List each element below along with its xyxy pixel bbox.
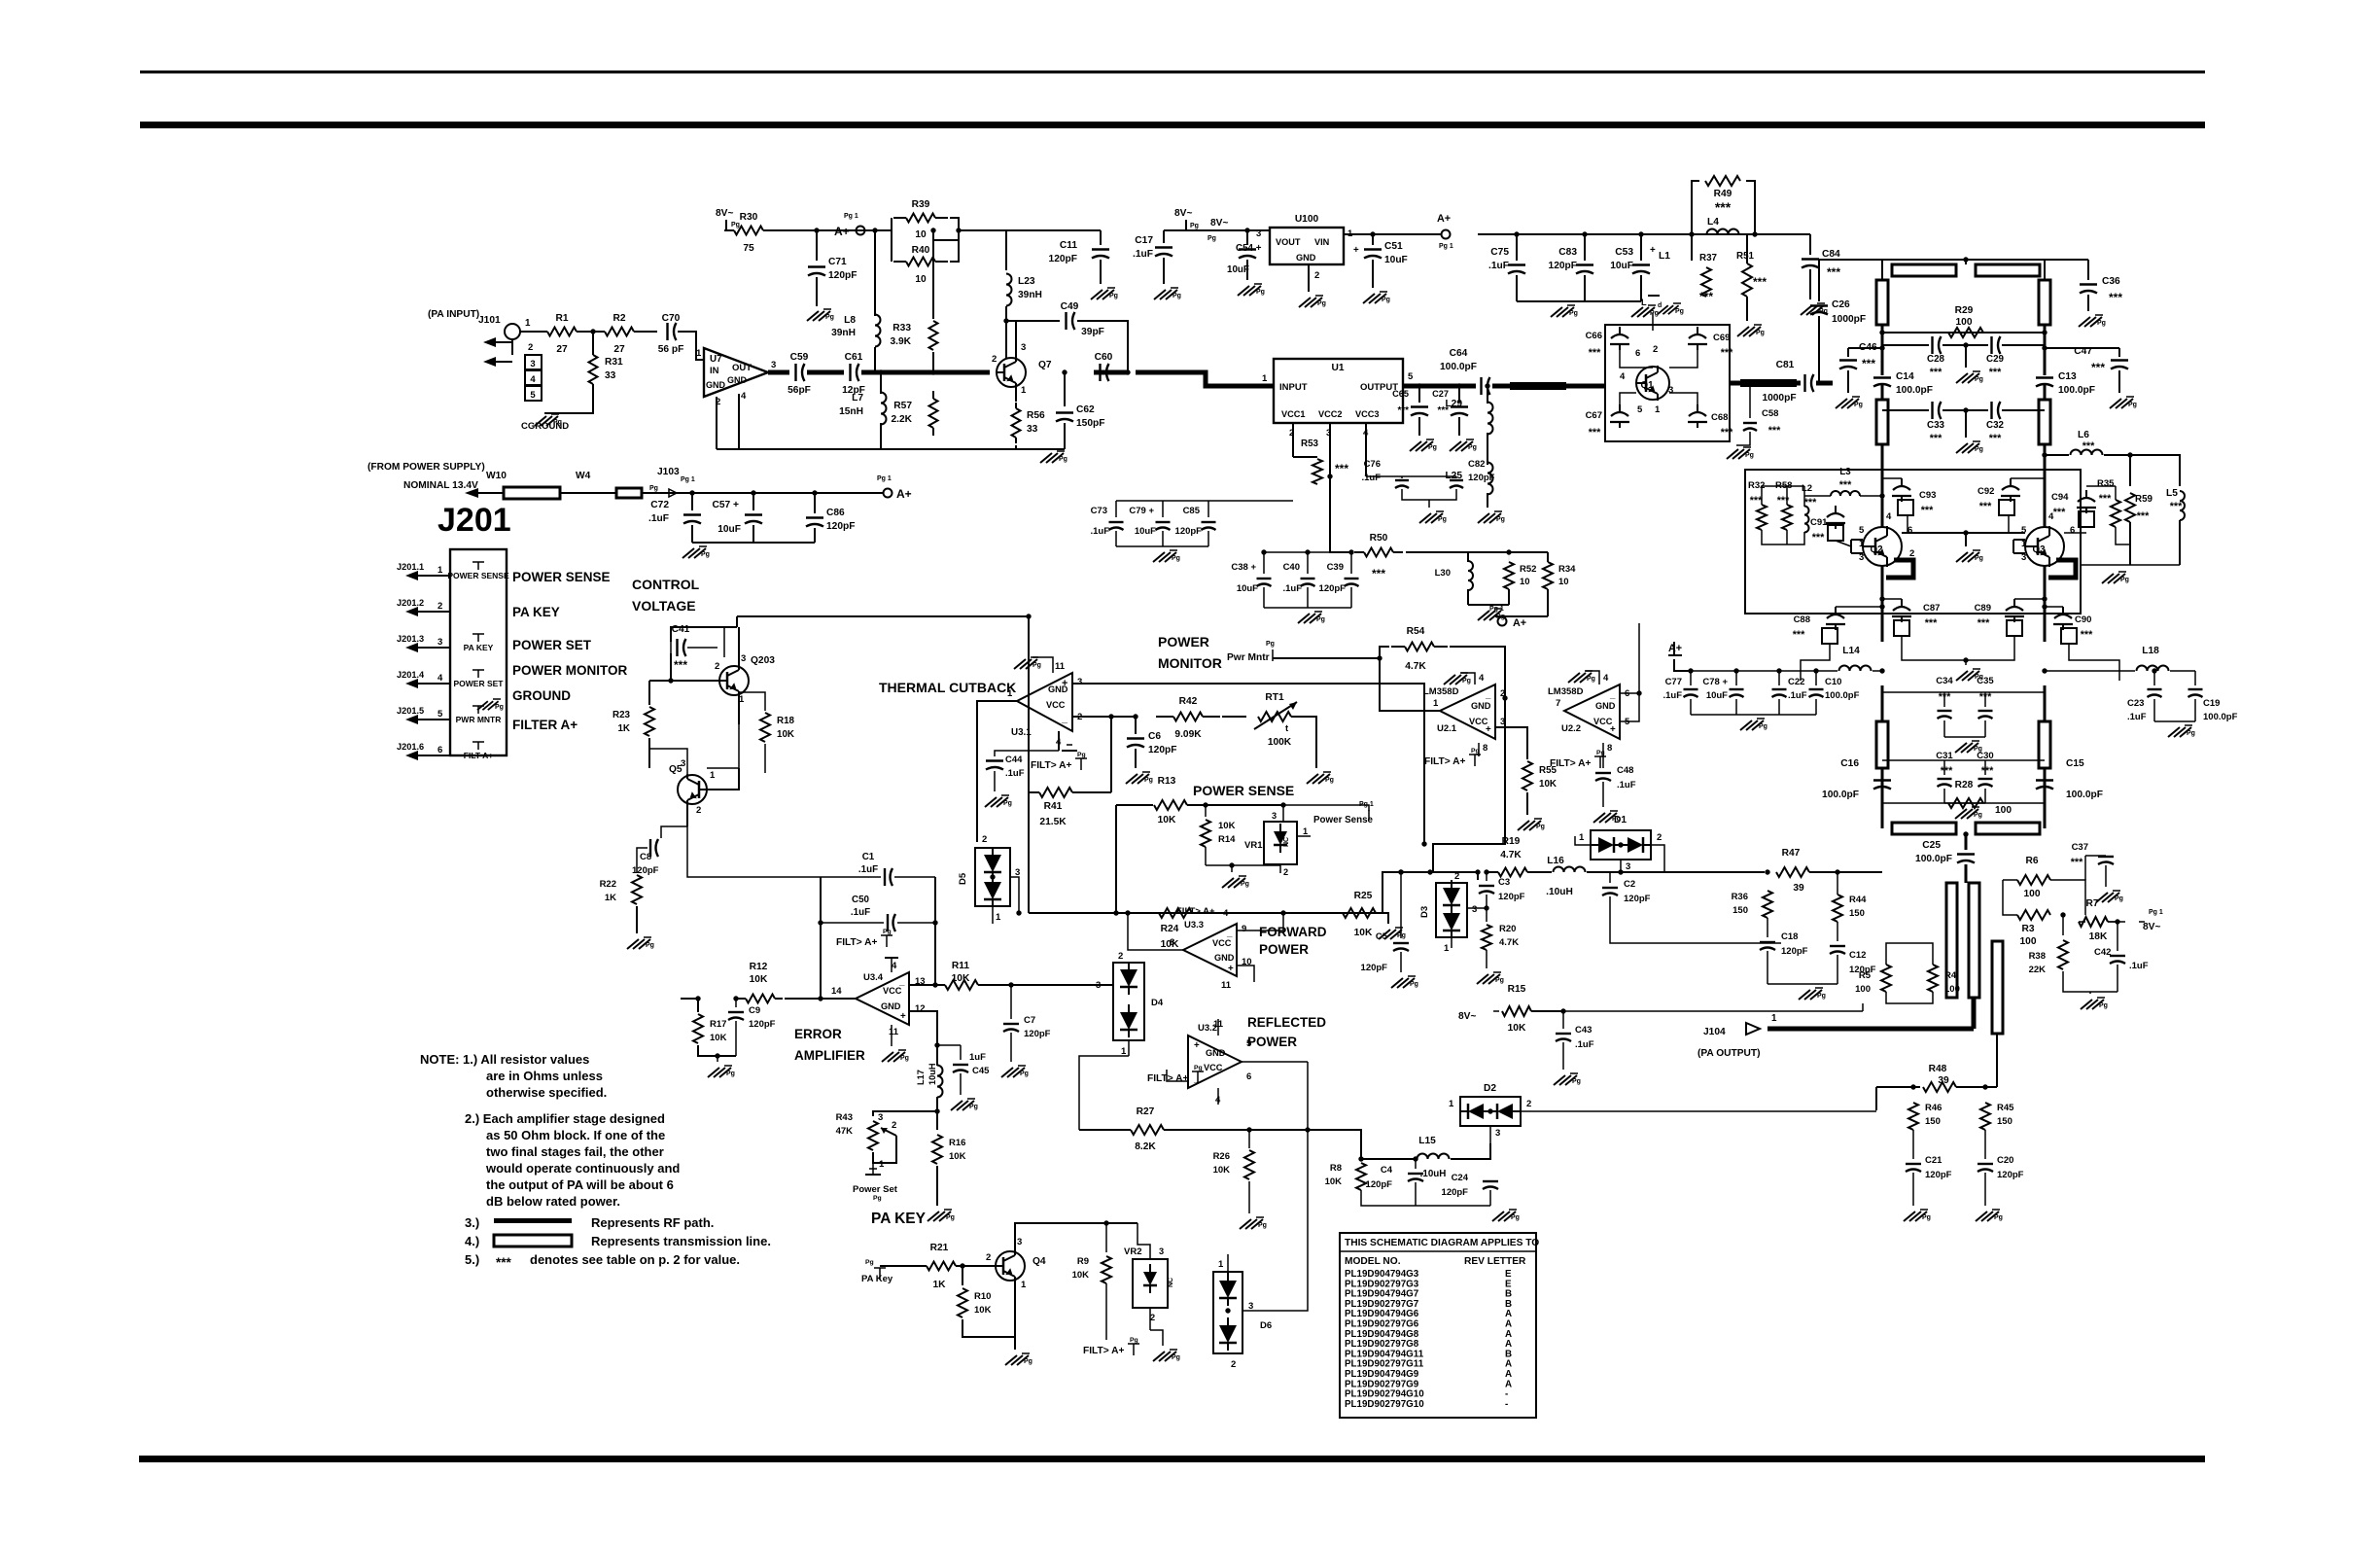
svg-text:C36: C36 <box>2102 276 2120 287</box>
svg-text:Pg: Pg <box>1428 444 1437 451</box>
svg-text:21.5K: 21.5K <box>1039 817 1067 827</box>
svg-text:R53: R53 <box>1301 439 1319 449</box>
svg-text:120pF: 120pF <box>1175 526 1203 537</box>
svg-text:6: 6 <box>1907 525 1912 536</box>
svg-text:_: _ <box>1609 689 1616 700</box>
svg-text:R59: R59 <box>2135 494 2153 505</box>
svg-text:GROUND: GROUND <box>512 688 571 703</box>
svg-text:U1: U1 <box>1331 363 1344 373</box>
svg-text:Pg: Pg <box>1587 676 1595 683</box>
svg-text:C46: C46 <box>1859 342 1877 353</box>
svg-text:6: 6 <box>1635 348 1640 359</box>
svg-text:75: 75 <box>743 243 754 254</box>
svg-text:Pg: Pg <box>1495 977 1504 984</box>
svg-text:R24: R24 <box>1161 924 1179 934</box>
svg-text:***: *** <box>1827 265 1840 279</box>
svg-text:NOMINAL 13.4V: NOMINAL 13.4V <box>403 480 478 491</box>
svg-text:120pF: 120pF <box>1361 963 1388 973</box>
svg-text:Pg: Pg <box>1032 662 1041 669</box>
svg-text:Pg: Pg <box>1190 223 1199 229</box>
svg-text:+: + <box>900 1011 906 1022</box>
svg-text:_: _ <box>1061 713 1068 724</box>
svg-text:4: 4 <box>530 374 536 385</box>
svg-text:_: _ <box>1485 689 1491 700</box>
svg-text:10: 10 <box>1520 577 1530 587</box>
svg-text:C81: C81 <box>1776 360 1795 370</box>
svg-text:2: 2 <box>992 354 997 365</box>
svg-text:5.): 5.) <box>465 1252 479 1267</box>
svg-text:dB below rated power.: dB below rated power. <box>486 1194 620 1209</box>
svg-text:A+: A+ <box>896 487 912 501</box>
svg-text:***: *** <box>1812 532 1825 544</box>
svg-text:C40: C40 <box>1283 562 1300 573</box>
svg-text:100.0pF: 100.0pF <box>2058 385 2095 396</box>
svg-text:Q203: Q203 <box>751 655 775 666</box>
svg-text:J201: J201 <box>437 502 511 539</box>
svg-text:Pg: Pg <box>900 1055 909 1062</box>
svg-text:C76: C76 <box>1364 459 1381 470</box>
svg-text:C88: C88 <box>1794 614 1810 625</box>
svg-text:Pg: Pg <box>646 942 654 949</box>
svg-text:.1uF: .1uF <box>1662 690 1682 701</box>
svg-text:Pg: Pg <box>1975 555 1983 562</box>
svg-text:R4: R4 <box>1944 970 1957 981</box>
svg-text:R19: R19 <box>1502 836 1521 847</box>
svg-text:1: 1 <box>1433 698 1439 709</box>
svg-text:C33: C33 <box>1927 420 1945 431</box>
svg-text:D5: D5 <box>958 872 968 885</box>
svg-text:***: *** <box>1793 629 1805 641</box>
svg-text:Pg: Pg <box>2128 402 2137 408</box>
svg-text:120pF: 120pF <box>1442 1187 1469 1198</box>
svg-text:150: 150 <box>1997 1116 2012 1127</box>
svg-text:Pg: Pg <box>1569 310 1578 317</box>
svg-text:120pF: 120pF <box>749 1019 776 1030</box>
svg-text:***: *** <box>1939 691 1951 703</box>
svg-text:5: 5 <box>530 390 536 401</box>
svg-text:C72: C72 <box>650 500 669 510</box>
svg-text:R14: R14 <box>1218 834 1236 845</box>
svg-text:R48: R48 <box>1929 1064 1947 1074</box>
svg-text:1: 1 <box>1655 404 1661 415</box>
svg-text:d: d <box>1658 302 1662 309</box>
svg-text:C25: C25 <box>1922 840 1941 851</box>
svg-text:R21: R21 <box>930 1243 949 1253</box>
svg-text:4: 4 <box>892 961 897 971</box>
svg-text:8V~: 8V~ <box>1174 208 1192 219</box>
svg-text:C2: C2 <box>1624 879 1635 890</box>
svg-text:Pg 1: Pg 1 <box>844 213 858 220</box>
svg-text:.1uF: .1uF <box>1005 768 1025 779</box>
svg-text:10K: 10K <box>1158 815 1176 825</box>
svg-text:W4: W4 <box>576 471 591 481</box>
svg-text:C45: C45 <box>972 1066 990 1076</box>
svg-text:D2: D2 <box>1484 1083 1496 1094</box>
svg-text:GND: GND <box>706 380 726 390</box>
svg-text:C14: C14 <box>1896 371 1914 382</box>
svg-text:R30: R30 <box>740 212 758 223</box>
svg-text:***: *** <box>2081 629 2093 641</box>
svg-text:***: *** <box>1721 427 1733 439</box>
svg-text:C51: C51 <box>1384 241 1403 252</box>
svg-text:5: 5 <box>1637 404 1643 415</box>
svg-text:_: _ <box>1193 1073 1200 1084</box>
svg-text:1: 1 <box>710 770 716 781</box>
svg-text:.1uF: .1uF <box>1133 249 1153 260</box>
svg-text:3: 3 <box>530 359 535 369</box>
svg-text:C94: C94 <box>2051 492 2069 503</box>
svg-text:***: *** <box>1589 347 1601 359</box>
svg-text:4.7K: 4.7K <box>1500 850 1522 860</box>
svg-text:L14: L14 <box>1842 646 1860 656</box>
svg-text:(PA INPUT): (PA INPUT) <box>428 309 479 320</box>
svg-text:VR2: VR2 <box>1124 1247 1141 1257</box>
svg-text:.1uF: .1uF <box>1282 583 1302 594</box>
svg-text:3: 3 <box>1495 1128 1500 1139</box>
svg-text:GND: GND <box>881 1001 901 1011</box>
svg-text:POWER SENSE: POWER SENSE <box>512 570 611 584</box>
svg-text:C23: C23 <box>2127 698 2144 709</box>
svg-text:1: 1 <box>1021 385 1027 396</box>
svg-text:C37: C37 <box>2072 842 2088 853</box>
svg-text:R26: R26 <box>1213 1151 1230 1162</box>
svg-text:POWER: POWER <box>1259 942 1309 957</box>
svg-text:Pg: Pg <box>2097 320 2106 327</box>
svg-text:Pg: Pg <box>946 1214 955 1221</box>
svg-text:C9: C9 <box>749 1005 760 1016</box>
svg-text:as 50 Ohm block. If one: as 50 Ohm block. If one of the <box>486 1128 665 1142</box>
svg-text:2: 2 <box>1657 832 1662 843</box>
svg-text:.1uF: .1uF <box>1575 1039 1594 1050</box>
svg-text:2: 2 <box>1314 270 1319 281</box>
svg-text:R44: R44 <box>1849 895 1867 905</box>
svg-text:C68: C68 <box>1711 412 1728 423</box>
svg-text:***: *** <box>1753 275 1767 289</box>
svg-text:100: 100 <box>1944 984 1960 995</box>
svg-text:R43: R43 <box>836 1112 853 1123</box>
svg-text:120pF: 120pF <box>632 865 659 876</box>
svg-text:Pg: Pg <box>1316 616 1325 623</box>
svg-text:L17: L17 <box>916 1070 926 1085</box>
svg-text:Pg: Pg <box>1256 289 1265 296</box>
svg-text:.1uF: .1uF <box>851 907 870 918</box>
svg-text:.10uH: .10uH <box>1546 887 1573 897</box>
svg-text:***: *** <box>1438 405 1450 416</box>
svg-text:A+: A+ <box>834 225 850 238</box>
svg-text:U3.1: U3.1 <box>1011 727 1032 738</box>
svg-text:Pg: Pg <box>2187 730 2195 737</box>
svg-text:C11: C11 <box>1060 240 1077 251</box>
svg-text:100.0pF: 100.0pF <box>1896 385 1933 396</box>
svg-text:27: 27 <box>613 344 625 355</box>
svg-text:U3.3: U3.3 <box>1184 920 1204 931</box>
svg-text:Pg 1: Pg 1 <box>1439 243 1453 250</box>
svg-text:3: 3 <box>437 637 442 648</box>
svg-text:FILT> A+: FILT> A+ <box>1031 760 1072 771</box>
svg-text:10K: 10K <box>710 1033 727 1043</box>
svg-text:Pg: Pg <box>1817 993 1826 1000</box>
svg-text:C90: C90 <box>2075 614 2091 625</box>
svg-text:120pF: 120pF <box>1366 1179 1393 1190</box>
svg-text:L1: L1 <box>1659 251 1670 262</box>
svg-text:Pg: Pg <box>1382 297 1390 303</box>
svg-text:Pg: Pg <box>1258 1222 1267 1229</box>
svg-text:***: *** <box>1768 425 1781 437</box>
svg-text:Pg: Pg <box>1172 293 1181 299</box>
svg-text:(FROM POWER SUPPLY): (FROM POWER SUPPLY) <box>367 462 485 473</box>
svg-text:R3: R3 <box>2021 924 2034 934</box>
svg-text:150: 150 <box>1849 908 1865 919</box>
svg-text:Pg: Pg <box>1130 1337 1138 1344</box>
svg-text:8V~: 8V~ <box>1210 218 1228 228</box>
svg-text:39: 39 <box>1938 1075 1949 1086</box>
svg-text:C78 +: C78 + <box>1702 677 1728 687</box>
svg-text:18K: 18K <box>2089 931 2108 942</box>
svg-text:100.0pF: 100.0pF <box>1915 854 1952 864</box>
svg-text:+: + <box>1650 245 1656 256</box>
svg-text:FORWARD: FORWARD <box>1259 925 1327 939</box>
svg-text:REFLECTED: REFLECTED <box>1247 1015 1326 1030</box>
svg-text:Q4: Q4 <box>1032 1256 1046 1267</box>
svg-text:R56: R56 <box>1027 410 1045 421</box>
svg-text:2: 2 <box>982 834 987 845</box>
svg-text:L23: L23 <box>1018 276 1035 287</box>
svg-text:***: *** <box>1839 479 1852 491</box>
svg-text:GND: GND <box>1206 1048 1226 1058</box>
svg-text:R54: R54 <box>1407 626 1425 637</box>
svg-text:120pF: 120pF <box>1624 894 1651 904</box>
svg-text:D3: D3 <box>1419 906 1430 918</box>
svg-text:L8: L8 <box>844 315 856 326</box>
svg-text:C32: C32 <box>1986 420 2005 431</box>
svg-text:4: 4 <box>1620 371 1626 382</box>
svg-text:***: *** <box>2099 493 2112 505</box>
svg-text:PL19D902797G10: PL19D902797G10 <box>1345 1399 1424 1410</box>
svg-text:100: 100 <box>2020 936 2037 947</box>
svg-text:3: 3 <box>771 360 776 370</box>
svg-text:C62: C62 <box>1076 404 1095 415</box>
svg-text:MODEL NO.: MODEL NO. <box>1345 1256 1401 1267</box>
svg-text:***: *** <box>1862 357 1875 370</box>
svg-text:Represents transmission line: Represents transmission line. <box>591 1234 771 1248</box>
svg-text:L15: L15 <box>1418 1136 1436 1146</box>
svg-text:J201.1: J201.1 <box>397 562 424 572</box>
svg-text:J201.6: J201.6 <box>397 742 424 752</box>
svg-text:120pF: 120pF <box>828 270 857 281</box>
svg-text:R15: R15 <box>1508 984 1526 995</box>
svg-text:***: *** <box>2082 440 2095 452</box>
svg-text:33: 33 <box>1027 424 1038 435</box>
svg-text:C59: C59 <box>790 352 809 363</box>
svg-text:R33: R33 <box>892 323 911 334</box>
svg-text:C27: C27 <box>1432 389 1449 399</box>
svg-text:Pg: Pg <box>1974 812 1982 819</box>
svg-text:3: 3 <box>1096 980 1101 991</box>
svg-text:***: *** <box>1930 367 1942 378</box>
svg-text:FILT> A+: FILT> A+ <box>1550 758 1592 769</box>
svg-text:Pg 1: Pg 1 <box>681 476 695 483</box>
svg-text:L4: L4 <box>1707 217 1719 228</box>
svg-text:R28: R28 <box>1955 780 1974 790</box>
svg-text:R36: R36 <box>1732 892 1748 902</box>
svg-text:10uH: 10uH <box>927 1063 937 1085</box>
svg-text:Pg: Pg <box>1109 293 1118 299</box>
svg-text:IN: IN <box>710 366 719 376</box>
svg-text:1: 1 <box>437 565 443 576</box>
svg-text:120pF: 120pF <box>1468 473 1495 483</box>
svg-text:6: 6 <box>437 745 442 755</box>
svg-text:C3: C3 <box>1498 877 1510 888</box>
svg-text:1: 1 <box>1449 1099 1454 1109</box>
svg-text:100.0pF: 100.0pF <box>2203 712 2238 722</box>
svg-text:2: 2 <box>1653 344 1658 355</box>
svg-text:C65: C65 <box>1392 389 1409 399</box>
svg-text:Pg: Pg <box>873 1195 882 1202</box>
svg-text:_: _ <box>1226 928 1233 938</box>
svg-text:C41: C41 <box>672 624 690 635</box>
svg-text:2: 2 <box>892 1120 896 1131</box>
svg-text:-: - <box>1505 1399 1508 1410</box>
svg-text:Pg: Pg <box>701 551 710 558</box>
svg-text:R38: R38 <box>2029 951 2046 962</box>
svg-text:120pF: 120pF <box>1024 1029 1051 1039</box>
svg-text:(PA OUTPUT): (PA OUTPUT) <box>1697 1048 1761 1059</box>
svg-text:120pF: 120pF <box>1148 745 1176 755</box>
svg-text:VCC: VCC <box>1212 938 1232 948</box>
svg-text:LM358D: LM358D <box>1548 686 1584 697</box>
svg-text:39pF: 39pF <box>1081 327 1104 337</box>
svg-text:***: *** <box>2137 510 2150 522</box>
svg-text:R29: R29 <box>1955 305 1974 316</box>
svg-text:denotes see table on p. 2: denotes see table on p. 2 for value. <box>530 1252 740 1267</box>
svg-text:100K: 100K <box>1268 737 1292 748</box>
svg-text:8: 8 <box>1170 937 1174 948</box>
svg-text:PA KEY: PA KEY <box>512 605 560 619</box>
svg-text:Pg: Pg <box>1994 1214 2003 1221</box>
svg-text:R37: R37 <box>1699 253 1718 263</box>
svg-text:R11: R11 <box>952 961 969 971</box>
svg-text:1: 1 <box>1579 832 1585 843</box>
svg-text:C93: C93 <box>1919 490 1936 501</box>
svg-text:POWER: POWER <box>1247 1035 1297 1049</box>
svg-text:POWER: POWER <box>1158 634 1209 650</box>
svg-text:11: 11 <box>889 1027 899 1037</box>
svg-text:120pF: 120pF <box>1498 892 1525 902</box>
svg-text:C69: C69 <box>1713 333 1730 343</box>
svg-text:+: + <box>1228 964 1234 974</box>
svg-text:.1uF: .1uF <box>2127 712 2147 722</box>
svg-text:8V~: 8V~ <box>2143 922 2160 932</box>
svg-text:100: 100 <box>2024 889 2041 899</box>
svg-text:Pg: Pg <box>731 222 740 228</box>
svg-text:U2.1: U2.1 <box>1437 723 1457 734</box>
svg-text:10K: 10K <box>949 1151 966 1162</box>
svg-text:22K: 22K <box>2029 965 2047 975</box>
svg-text:C75: C75 <box>1490 247 1509 258</box>
svg-text:C67: C67 <box>1586 410 1602 421</box>
svg-text:R16: R16 <box>949 1138 965 1148</box>
svg-text:3: 3 <box>1017 1237 1022 1247</box>
svg-text:***: *** <box>1750 495 1763 507</box>
svg-text:C5: C5 <box>1376 931 1388 942</box>
svg-text:GND: GND <box>1471 701 1491 711</box>
svg-text:C64: C64 <box>1450 348 1468 359</box>
svg-text:***: *** <box>1989 433 2002 444</box>
svg-text:C21: C21 <box>1925 1155 1942 1166</box>
svg-text:Pg: Pg <box>1471 748 1480 755</box>
svg-text:1: 1 <box>1262 373 1268 384</box>
svg-text:C61: C61 <box>845 352 863 363</box>
svg-text:Pwr Mntr: Pwr Mntr <box>1227 652 1270 663</box>
svg-text:Pg: Pg <box>1172 555 1180 562</box>
svg-text:D4: D4 <box>1151 998 1164 1008</box>
svg-text:RT1: RT1 <box>1265 692 1284 703</box>
svg-text:Pg: Pg <box>1144 777 1153 784</box>
svg-text:3: 3 <box>1021 342 1026 353</box>
svg-text:MONITOR: MONITOR <box>1158 655 1222 671</box>
svg-text:C83: C83 <box>1558 247 1577 258</box>
svg-text:***: *** <box>1372 567 1385 580</box>
svg-text:+: + <box>1610 724 1616 735</box>
svg-text:Pg: Pg <box>1536 824 1545 830</box>
svg-text:1: 1 <box>525 318 531 329</box>
svg-text:120pF: 120pF <box>1781 946 1808 957</box>
svg-text:+: + <box>1194 1040 1200 1051</box>
svg-text:***: *** <box>674 658 687 672</box>
svg-text:15nH: 15nH <box>839 406 863 417</box>
svg-text:39nH: 39nH <box>1018 290 1042 300</box>
svg-text:C87: C87 <box>1923 603 1940 614</box>
svg-text:Q2: Q2 <box>1870 544 1883 555</box>
svg-text:10: 10 <box>915 229 927 240</box>
svg-text:C39: C39 <box>1327 562 1344 573</box>
svg-text:L30: L30 <box>1435 568 1451 579</box>
svg-text:3: 3 <box>1159 1247 1164 1256</box>
svg-text:C7: C7 <box>1024 1015 1035 1026</box>
svg-text:3.9K: 3.9K <box>890 336 911 347</box>
svg-text:Pg: Pg <box>1077 752 1086 758</box>
svg-text:120pF: 120pF <box>1319 583 1347 594</box>
svg-text:REV LETTER: REV LETTER <box>1464 1256 1526 1267</box>
svg-text:Pg 1: Pg 1 <box>2149 909 2163 916</box>
svg-text:Q1: Q1 <box>1640 380 1654 391</box>
svg-text:R25: R25 <box>1354 891 1373 901</box>
svg-text:R41: R41 <box>1044 801 1063 812</box>
svg-text:Pg: Pg <box>1207 235 1216 242</box>
svg-text:R12: R12 <box>750 962 768 972</box>
svg-text:100.0pF: 100.0pF <box>2066 790 2103 800</box>
svg-text:***: *** <box>1921 505 1934 516</box>
svg-text:C73: C73 <box>1091 506 1107 516</box>
svg-text:.1uF: .1uF <box>858 864 878 875</box>
svg-text:R50: R50 <box>1370 533 1388 544</box>
svg-text:Power Set: Power Set <box>853 1184 898 1195</box>
svg-text:Pg: Pg <box>1266 641 1275 648</box>
svg-text:Pg: Pg <box>1596 750 1605 756</box>
svg-text:U7: U7 <box>710 354 722 365</box>
svg-text:2: 2 <box>1909 548 1914 559</box>
svg-text:.1uF: .1uF <box>1090 526 1109 537</box>
svg-text:***: *** <box>1977 617 1990 629</box>
svg-text:J103: J103 <box>657 467 680 477</box>
svg-text:R35: R35 <box>2097 478 2115 489</box>
svg-text:Pg: Pg <box>1024 1358 1032 1365</box>
svg-text:C22: C22 <box>1788 677 1804 687</box>
svg-text:A+: A+ <box>1513 617 1526 629</box>
svg-text:J201.2: J201.2 <box>397 598 424 608</box>
svg-text:1: 1 <box>1021 1280 1027 1290</box>
svg-text:C91: C91 <box>1810 517 1828 528</box>
